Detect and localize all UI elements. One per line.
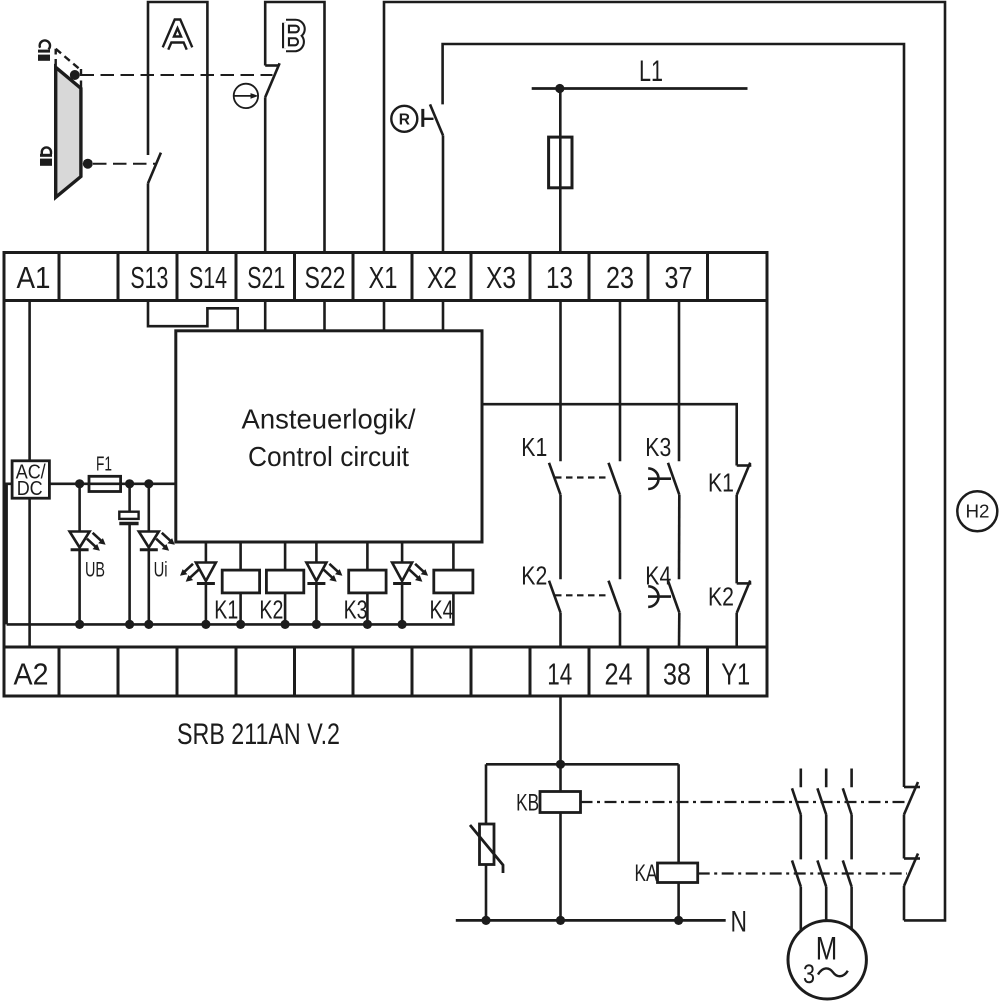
- contactor coil KA: [658, 863, 698, 883]
- wire S22 to logic: [323, 301, 326, 331]
- contact K3 (NO signalling, 37-38 path): [648, 463, 679, 495]
- LED K2 (arrows right): [306, 563, 342, 584]
- svg-text:DC: DC: [17, 478, 43, 500]
- mechanical link door to contact A (dash-dot): [93, 163, 156, 165]
- wire varistor branch upper: [485, 764, 488, 824]
- svg-text:K2: K2: [259, 596, 283, 624]
- junction KA/N: [674, 916, 683, 925]
- svg-text:14: 14: [547, 657, 572, 692]
- svg-text:A2: A2: [14, 657, 49, 692]
- wire coil K1 branch: [239, 542, 242, 624]
- contact K2b (NO): [609, 581, 621, 613]
- junction K2/0V: [281, 620, 290, 629]
- contact K1b (NO, 23-24 path): [609, 463, 621, 495]
- contact K2c (NC): [737, 581, 752, 614]
- wire contact K1b to contact K2b: [619, 495, 622, 580]
- node door actuator lower (dot): [83, 159, 93, 169]
- LED Ui: [139, 532, 175, 551]
- relay coil K1: [222, 570, 259, 593]
- wire LED K1 branch: [205, 542, 208, 624]
- svg-text:S14: S14: [189, 260, 227, 295]
- wire to X2 terminal: [442, 135, 445, 252]
- wire varistor branch lower: [485, 865, 488, 921]
- junction varistor/N: [481, 916, 490, 925]
- wire contact K3 to contact K4: [678, 495, 681, 580]
- svg-text:38: 38: [663, 657, 691, 692]
- mechanical link KA to power contacts (dash-dot): [698, 872, 907, 874]
- relay coil K4: [434, 570, 473, 593]
- wire AC/DC 0V down-left: [7, 484, 13, 625]
- junction 14 branch: [556, 760, 565, 769]
- wire S13 to logic (staircase): [148, 301, 238, 331]
- wire C branch lower: [128, 524, 131, 625]
- svg-text:K1: K1: [708, 468, 734, 498]
- position switch A (NO contact to S13): [148, 153, 161, 253]
- wire X1 feedback loop (outer): [384, 2, 945, 920]
- contact K1c (NC, Y1 path): [737, 463, 752, 495]
- svg-text:K4: K4: [645, 560, 671, 590]
- wire contact K2 to terminal 14: [559, 613, 562, 647]
- junction UB tap: [75, 479, 84, 488]
- line fuse F: [549, 137, 572, 188]
- junction Ui tap: [144, 479, 153, 488]
- actuator symbol B (circle with arrow): [234, 84, 259, 108]
- svg-text:A1: A1: [17, 260, 51, 295]
- svg-text:K2: K2: [521, 560, 547, 590]
- internal 0V rail: [7, 593, 454, 625]
- wire LED K3 branch: [401, 542, 404, 624]
- svg-text:N: N: [731, 906, 748, 939]
- svg-text:UB: UB: [85, 558, 105, 581]
- junction UB/0V: [75, 620, 84, 629]
- svg-text:Y1: Y1: [721, 657, 750, 692]
- wire terminal 14 down: [559, 696, 562, 764]
- relay coil K2: [266, 570, 303, 593]
- svg-text:K4: K4: [430, 596, 454, 624]
- junction LED K1/0V: [201, 620, 210, 629]
- wire KB branch upper: [559, 764, 562, 791]
- contactor coil KB: [540, 792, 581, 813]
- relay device outline SRB 211AN: [4, 253, 767, 697]
- LED K3 (arrows right): [392, 563, 428, 584]
- svg-text:13: 13: [546, 260, 573, 295]
- motor tilde: [818, 968, 848, 976]
- svg-text:KA: KA: [635, 860, 658, 887]
- svg-text:S13: S13: [130, 260, 168, 295]
- wire 13 to contact K1: [559, 301, 562, 462]
- svg-text:M: M: [816, 931, 838, 967]
- svg-text:Control circuit: Control circuit: [248, 441, 409, 472]
- control logic box U1: [176, 331, 482, 542]
- wire UB branch lower: [78, 550, 81, 625]
- wire feedback loop bottom: [903, 886, 906, 920]
- feedback contact KA (NC): [904, 854, 920, 887]
- wire contact K1c to contact K2c: [735, 495, 738, 583]
- wire logic to Y1 chain: [482, 404, 737, 465]
- feedback contact KB (NC, in X1-X2 loop): [904, 782, 920, 815]
- terminal row separators bottom: [59, 647, 708, 696]
- junction LED K3/0V: [398, 620, 407, 629]
- junction Ui/0V: [144, 620, 153, 629]
- wire KA branch upper: [677, 764, 680, 863]
- svg-text:S21: S21: [247, 260, 285, 295]
- padlock (open): [38, 40, 50, 60]
- svg-text:K3: K3: [344, 596, 368, 624]
- wire X2 to reset loop (inner): [443, 44, 904, 787]
- svg-text:X3: X3: [486, 260, 516, 295]
- AC/DC converter: [12, 461, 49, 498]
- wire 37 to contact K3: [678, 301, 681, 462]
- svg-text:K1: K1: [521, 432, 547, 462]
- wire between feedback contacts: [903, 815, 906, 859]
- varistor RV (suppressor): [470, 824, 503, 873]
- svg-text:S22: S22: [305, 260, 346, 295]
- indicator lamp H2: [957, 491, 997, 531]
- node door actuator upper (dot): [70, 70, 80, 80]
- wire A1 to AC/DC: [28, 301, 31, 461]
- position switch B (NC contact to S21): [265, 63, 279, 252]
- wire AC/DC output to logic: [49, 482, 175, 485]
- mechanical link K1-K1b (dashed): [555, 476, 608, 478]
- svg-text:SRB 211AN V.2: SRB 211AN V.2: [177, 718, 340, 751]
- svg-text:24: 24: [605, 657, 633, 692]
- wire X2 to logic: [442, 301, 445, 331]
- wire Ui branch upper: [148, 484, 151, 532]
- motor M1 (3~): [788, 921, 866, 999]
- capacitor C1: [119, 512, 138, 524]
- junction KB/N: [556, 916, 565, 925]
- svg-text:K2: K2: [708, 582, 734, 612]
- channel A frame: [148, 2, 207, 253]
- wire contact K4 to terminal 38: [678, 613, 681, 647]
- wire L1 to terminal 13: [559, 89, 562, 253]
- contactor KB power contacts (3-phase): [792, 769, 852, 860]
- junction K3/0V: [363, 620, 372, 629]
- wire contact K1 to contact K2: [559, 495, 562, 580]
- svg-text:H2: H2: [966, 502, 990, 522]
- wire 23 to contact K1b: [619, 301, 622, 462]
- contact K4 (NO signalling): [648, 581, 679, 613]
- junction L1/fuse: [555, 84, 564, 93]
- wire coil K2 branch: [284, 542, 287, 624]
- padlock (closed): [40, 147, 52, 165]
- svg-text:F1: F1: [96, 453, 112, 475]
- wire branch rail to KB/KA/varistor: [486, 763, 679, 766]
- svg-text:X1: X1: [369, 260, 398, 295]
- svg-text:37: 37: [665, 260, 693, 295]
- contactor KA power contacts (3-phase): [792, 860, 852, 930]
- door open position (dashed outline): [56, 49, 81, 87]
- contact K1 (NO, 13-14 path): [549, 463, 561, 495]
- svg-text:3: 3: [803, 959, 815, 989]
- wire Ui branch lower: [148, 550, 151, 625]
- wire S21 to logic: [264, 301, 267, 331]
- wire AC/DC to A2: [28, 498, 31, 647]
- wire LED K2 branch: [315, 542, 318, 624]
- channel label B (outline): [286, 23, 302, 49]
- mechanical link KB to power contacts (dash-dot): [581, 801, 908, 803]
- wire UB branch upper: [78, 484, 81, 532]
- terminal row separators top: [59, 253, 708, 301]
- svg-text:K1: K1: [214, 596, 238, 624]
- svg-text:X2: X2: [427, 260, 457, 295]
- LED UB: [70, 532, 106, 551]
- mechanical link door to contact B (dash-dot): [81, 74, 273, 76]
- neutral rail N: [456, 919, 726, 922]
- reset contact blade (NO): [430, 104, 443, 135]
- reset button plunger: [423, 109, 434, 127]
- wire X1 to logic: [383, 301, 386, 331]
- svg-text:23: 23: [606, 260, 634, 295]
- wire coil K4 branch: [452, 542, 455, 570]
- junction K1/0V: [236, 620, 245, 629]
- junction C/0V: [125, 620, 134, 629]
- fuse F1: [89, 476, 121, 491]
- relay coil K3: [349, 570, 386, 593]
- svg-text:Ui: Ui: [154, 558, 168, 581]
- mechanical link K2-K2b (dashed): [555, 594, 608, 596]
- channel label A (outline): [166, 23, 190, 49]
- wire KA branch lower: [677, 883, 680, 921]
- wire KB branch lower: [559, 813, 562, 921]
- svg-text:KB: KB: [516, 790, 539, 817]
- safety guard door (closed position): [56, 67, 81, 197]
- supply rail L1: [532, 87, 748, 90]
- contact K2 (NO): [549, 581, 561, 613]
- wire C branch upper: [128, 484, 131, 512]
- reset button R (circle): [391, 106, 417, 132]
- wire coil K3 branch: [366, 542, 369, 624]
- LED K1 (arrows left): [180, 563, 216, 584]
- svg-text:R: R: [399, 112, 410, 129]
- wire contact K2b to terminal 24: [619, 613, 622, 647]
- junction C tap: [125, 479, 134, 488]
- svg-text:L1: L1: [639, 55, 663, 88]
- channel B frame: [265, 2, 324, 253]
- junction LED K2/0V: [312, 620, 321, 629]
- svg-text:K3: K3: [645, 432, 671, 462]
- svg-text:Ansteuerlogik/: Ansteuerlogik/: [242, 404, 416, 435]
- wire contact K2c to terminal Y1: [735, 613, 738, 647]
